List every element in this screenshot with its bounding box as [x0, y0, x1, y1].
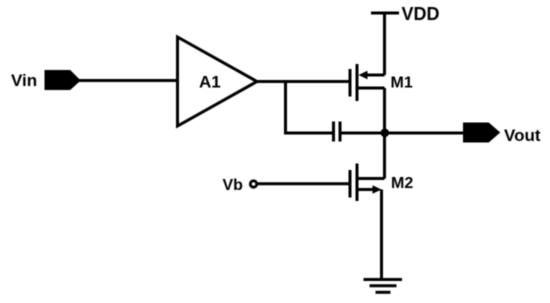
node Vin input terminal arrow: [45, 71, 80, 90]
wire VDD to M1 source: [383, 13, 386, 75]
transistor M2 source wire with arrow: [359, 188, 378, 191]
transistor M1 source wire with arrow: [362, 74, 385, 77]
ground symbol: [364, 278, 403, 281]
svg-text:M1: M1: [391, 75, 413, 92]
capacitor C1 right plate: [339, 122, 342, 142]
svg-text:Vb: Vb: [223, 177, 244, 194]
wire A1 output to M1 gate: [257, 80, 350, 83]
svg-text:A1: A1: [199, 73, 221, 92]
node feedback branch junction: [284, 82, 287, 134]
wire M1 drain to output node: [383, 88, 386, 133]
svg-text:VDD: VDD: [402, 4, 440, 24]
svg-text:Vin: Vin: [11, 71, 37, 90]
svg-text:M2: M2: [391, 175, 413, 192]
wire Vb to M2 gate: [258, 182, 351, 185]
capacitor C1 left plate: [332, 122, 335, 142]
transistor M2 drain wire: [359, 177, 385, 180]
wire capacitor to output node: [342, 132, 465, 135]
node Vb terminal circle: [250, 181, 256, 187]
power VDD supply bar: [371, 12, 399, 15]
wire Vin to amplifier input: [79, 79, 178, 82]
transistor M1 gate bar: [349, 69, 352, 97]
wire branch to capacitor: [284, 132, 332, 135]
wire M2 source to ground: [380, 190, 383, 281]
transistor M2 channel bar: [356, 164, 359, 202]
node output junction dot: [381, 129, 390, 138]
transistor M1 channel bar: [356, 64, 359, 101]
transistor M1 drain wire: [359, 87, 385, 90]
op-amp A1: [178, 37, 258, 126]
transistor M2 gate bar: [349, 170, 352, 198]
svg-text:Vout: Vout: [504, 126, 541, 145]
wire output node to M2 drain: [383, 133, 386, 179]
node Vout output terminal arrow: [464, 123, 500, 142]
